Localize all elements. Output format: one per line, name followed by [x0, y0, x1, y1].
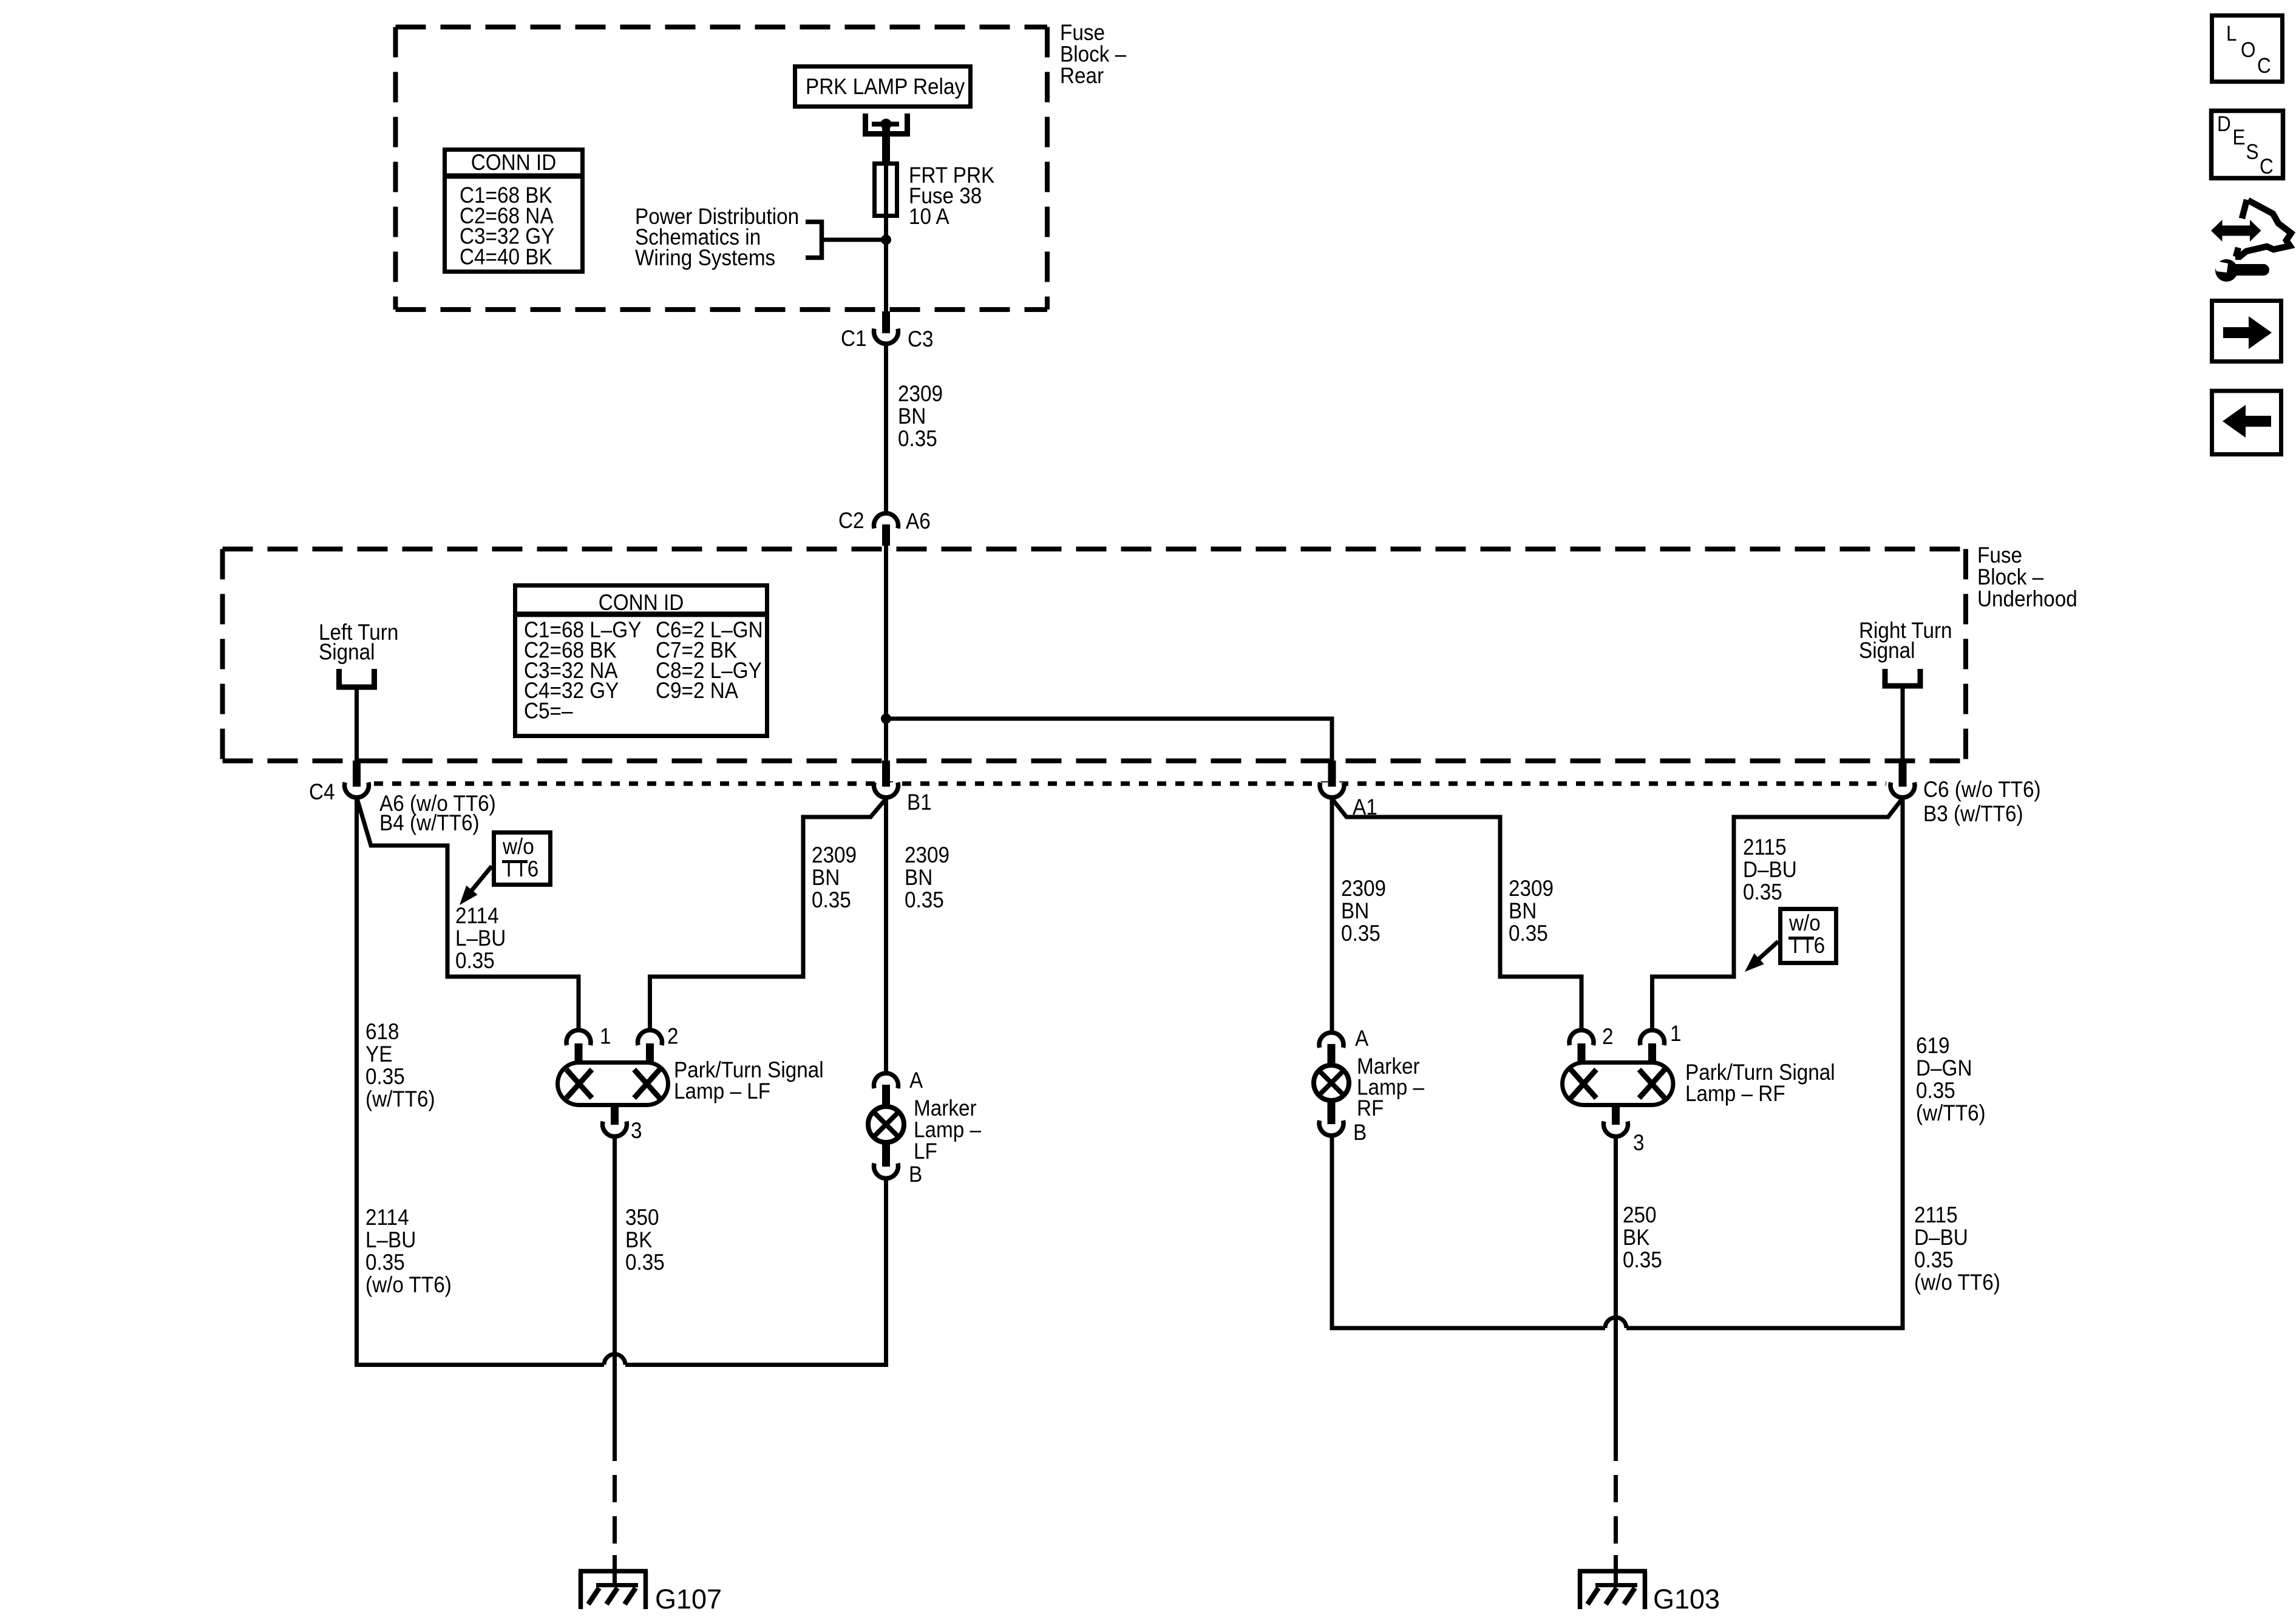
marker LF pin A bar: [882, 1085, 890, 1106]
park/turn LF pin 2 cup: [638, 1030, 662, 1045]
ground G103: [1578, 1571, 1647, 1610]
lamp Marker Lamp - RF: [1314, 1065, 1349, 1100]
arrow from w/o TT6 box (right): [1759, 941, 1778, 959]
lamp Marker Lamp - LF: [868, 1107, 904, 1142]
relay output pin bracket: [866, 114, 908, 134]
icon box DESC: [2212, 111, 2283, 178]
ground bus hop over 250 BK wire: [1605, 1318, 1626, 1329]
wire 2309 BN A1 down to marker lamp RF: [1330, 799, 1334, 1031]
ground bus to marker lamp LF pin B: [625, 1180, 886, 1365]
svg-text:CONN ID: CONN ID: [471, 150, 557, 175]
wire bracket to junction: [824, 238, 886, 242]
svg-text:0.35: 0.35: [365, 1064, 405, 1089]
svg-text:w/o: w/o: [1788, 910, 1821, 935]
wire 2309 BN C1 to C2: [884, 345, 888, 512]
svg-text:C3: C3: [908, 327, 934, 351]
svg-text:0.35: 0.35: [625, 1250, 665, 1275]
park/turn RF pin 2 cup: [1569, 1030, 1594, 1045]
svg-text:0.35: 0.35: [1341, 921, 1381, 946]
svg-text:A: A: [1355, 1026, 1369, 1051]
icon box next (right arrow): [2212, 301, 2281, 362]
icon box LOC: [2212, 16, 2283, 82]
svg-text:0.35: 0.35: [455, 948, 495, 973]
svg-text:BN: BN: [1341, 898, 1369, 923]
svg-text:2114: 2114: [365, 1205, 409, 1230]
wire marker RF pin B to ground bus: [1332, 1136, 1605, 1328]
power distribution bracket: [806, 222, 822, 258]
wire junction to C1: [884, 240, 888, 311]
svg-text:618: 618: [365, 1019, 399, 1044]
svg-text:CONN ID: CONN ID: [599, 590, 684, 615]
connector C1/C3 cup: [874, 329, 898, 344]
svg-text:350: 350: [625, 1205, 659, 1230]
park/turn RF pin 1 cup: [1640, 1030, 1665, 1045]
svg-text:C4: C4: [309, 779, 335, 804]
park/turn RF pin 2 bar: [1578, 1043, 1586, 1063]
wire 619 D-GN / 2115 D-BU C6 down to ground bus: [1626, 799, 1903, 1328]
icon box back (left arrow): [2212, 391, 2281, 455]
svg-text:B: B: [1353, 1120, 1367, 1145]
right turn signal terminal: [1885, 669, 1920, 686]
marker RF pin A bar: [1328, 1044, 1336, 1064]
left turn signal terminal: [339, 669, 375, 687]
svg-text:LF: LF: [914, 1139, 937, 1164]
connector B1 pin bar: [882, 761, 890, 787]
park/turn RF pin 3 bar: [1612, 1107, 1620, 1125]
dotted connector interface line: [374, 781, 1886, 786]
svg-text:BN: BN: [905, 865, 932, 890]
park/turn RF pin 1 bar: [1648, 1043, 1656, 1063]
relay pin bar: [882, 124, 890, 161]
wire into G103: [1614, 1555, 1618, 1584]
park/turn RF pin 3 cup: [1604, 1122, 1628, 1137]
svg-text:0.35: 0.35: [1509, 921, 1548, 946]
svg-text:2309: 2309: [1341, 876, 1386, 901]
svg-text:BK: BK: [1623, 1225, 1650, 1250]
svg-text:B: B: [909, 1162, 922, 1187]
svg-text:0.35: 0.35: [1623, 1247, 1662, 1272]
callout box w/o TT6 (right): [1781, 909, 1836, 963]
svg-text:Lamp – RF: Lamp – RF: [1685, 1081, 1785, 1106]
svg-text:2309: 2309: [905, 842, 949, 867]
svg-text:(w/TT6): (w/TT6): [365, 1086, 435, 1111]
connector B1 cup: [874, 782, 898, 798]
svg-text:L: L: [2226, 22, 2237, 46]
svg-text:D: D: [2217, 113, 2231, 137]
marker LF pin A cup: [874, 1073, 898, 1088]
lamp Park/Turn Signal Lamp - RF: [1563, 1063, 1674, 1105]
svg-text:Signal: Signal: [1859, 638, 1915, 663]
svg-text:RF: RF: [1357, 1096, 1384, 1120]
svg-text:B1: B1: [907, 790, 932, 815]
wire relay to junction: [884, 161, 888, 240]
svg-text:2309: 2309: [812, 842, 857, 867]
svg-text:G107: G107: [655, 1584, 722, 1615]
svg-text:L–BU: L–BU: [455, 926, 506, 951]
connector C6/B3 pin bar: [1899, 761, 1907, 787]
svg-text:3: 3: [631, 1118, 642, 1143]
marker LF pin B bar: [882, 1143, 890, 1167]
park/turn LF pin 1 bar: [575, 1043, 583, 1063]
park/turn LF pin 1 cup: [566, 1030, 591, 1045]
marker RF pin B cup: [1319, 1120, 1343, 1136]
svg-text:A: A: [909, 1068, 923, 1093]
connector A1 cup: [1320, 782, 1344, 798]
svg-text:PRK LAMP Relay: PRK LAMP Relay: [806, 74, 965, 99]
svg-text:0.35: 0.35: [898, 426, 937, 451]
svg-text:D–BU: D–BU: [1914, 1225, 1968, 1250]
wire 250 BK pin3 to ground lead: [1614, 1138, 1618, 1434]
svg-text:E: E: [2233, 126, 2246, 150]
wire 2309 BN branch B1 to park/turn LF pin 2: [650, 799, 886, 1029]
svg-text:C6 (w/o TT6): C6 (w/o TT6): [1923, 777, 2041, 802]
svg-text:(w/TT6): (w/TT6): [1916, 1100, 1986, 1125]
wire C2 to B1: [884, 544, 888, 761]
fuse block - rear dashed box: [396, 25, 1048, 30]
svg-text:1: 1: [1670, 1021, 1682, 1046]
svg-text:1: 1: [600, 1024, 611, 1049]
wire into G107: [613, 1555, 617, 1584]
wire junction to A1: [886, 719, 1333, 761]
svg-text:2114: 2114: [455, 903, 499, 928]
marker LF pin B cup: [874, 1164, 898, 1179]
svg-text:2309: 2309: [1509, 876, 1554, 901]
connector C6/B3 cup: [1890, 782, 1915, 798]
park/turn LF pin 3 cup: [603, 1122, 627, 1137]
connector C4 cup: [345, 782, 369, 798]
svg-text:S: S: [2246, 141, 2259, 164]
connector C2/A6 cup: [874, 514, 898, 529]
svg-text:Block –: Block –: [1977, 564, 2044, 589]
svg-text:D–GN: D–GN: [1916, 1056, 1972, 1080]
svg-text:0.35: 0.35: [365, 1250, 405, 1275]
svg-text:C: C: [2260, 155, 2274, 179]
svg-text:Rear: Rear: [1060, 63, 1104, 88]
connector C4 pin bar: [353, 761, 361, 787]
svg-text:(w/o TT6): (w/o TT6): [365, 1272, 452, 1297]
connector C2/A6 pin bar: [882, 524, 890, 546]
lamp Park/Turn Signal Lamp - LF: [558, 1063, 668, 1105]
svg-text:B3 (w/TT6): B3 (w/TT6): [1923, 801, 2023, 826]
svg-text:250: 250: [1623, 1202, 1657, 1227]
svg-text:10 A: 10 A: [909, 204, 949, 229]
svg-text:Fuse: Fuse: [1977, 543, 2022, 568]
wire 250 BK dashed ground lead: [1614, 1434, 1618, 1555]
connector C1/C3 pin bar: [882, 311, 890, 333]
svg-text:0.35: 0.35: [812, 887, 851, 912]
svg-text:2309: 2309: [898, 381, 943, 406]
svg-text:D–BU: D–BU: [1743, 857, 1797, 882]
svg-text:w/o: w/o: [502, 834, 534, 859]
svg-text:C: C: [2257, 55, 2271, 78]
relay box PRK LAMP Relay: [795, 67, 971, 107]
svg-text:A6: A6: [906, 509, 931, 534]
svg-text:C4=40 BK: C4=40 BK: [460, 245, 552, 269]
svg-text:YE: YE: [365, 1042, 392, 1066]
svg-text:C2: C2: [838, 508, 864, 533]
park/turn LF pin 2 bar: [646, 1043, 654, 1063]
wire 350 BK pin3 to ground lead: [613, 1138, 617, 1434]
wire 2114 L-BU branch C4 to park/turn LF pin 1: [358, 799, 579, 1029]
callout box w/o TT6 (left): [494, 833, 551, 885]
svg-text:BN: BN: [898, 404, 926, 429]
svg-text:G103: G103: [1653, 1584, 1720, 1615]
wire 618 YE / 2114 L-BU down from C4 to ground bus: [357, 799, 605, 1365]
svg-text:Lamp – LF: Lamp – LF: [674, 1079, 770, 1103]
svg-text:C9=2 NA: C9=2 NA: [656, 679, 739, 703]
svg-text:2115: 2115: [1914, 1202, 1958, 1227]
icon vehicle view with double arrow and wrench: [2211, 220, 2261, 242]
ground G107: [579, 1571, 648, 1610]
junction dot below fuse: [881, 235, 891, 245]
svg-text:2: 2: [1602, 1024, 1614, 1049]
svg-text:0.35: 0.35: [905, 887, 944, 912]
svg-text:C5=–: C5=–: [524, 699, 573, 724]
marker RF pin B bar: [1328, 1102, 1336, 1124]
wire 350 BK dashed ground lead: [613, 1434, 617, 1555]
arrow from w/o TT6 box (left): [472, 866, 492, 890]
svg-text:(w/o TT6): (w/o TT6): [1914, 1270, 2000, 1295]
park/turn LF pin 3 bar: [611, 1107, 619, 1125]
marker RF pin A cup: [1319, 1032, 1343, 1048]
CONN ID table (rear fuse block): [445, 150, 583, 272]
wire right turn signal to C6: [1901, 688, 1905, 761]
svg-text:Wiring Systems: Wiring Systems: [635, 245, 775, 270]
junction dot to right-turn branch: [881, 714, 891, 724]
svg-text:0.35: 0.35: [1914, 1247, 1954, 1272]
relay contact dot: [881, 119, 892, 130]
svg-text:0.35: 0.35: [1916, 1078, 1955, 1103]
svg-text:BN: BN: [812, 865, 840, 890]
svg-text:BN: BN: [1509, 898, 1537, 923]
fuse body: [875, 164, 897, 216]
svg-text:L–BU: L–BU: [365, 1227, 416, 1252]
ground bus hop over 350 BK wire: [604, 1354, 625, 1365]
svg-text:0.35: 0.35: [1743, 880, 1782, 904]
svg-text:2115: 2115: [1743, 835, 1787, 859]
fuse block - underhood dashed box: [223, 547, 1966, 552]
svg-text:Underhood: Underhood: [1977, 586, 2077, 611]
wire 2115 D-BU branch C6 to park/turn RF pin 1: [1652, 799, 1902, 1029]
svg-text:C1: C1: [841, 326, 867, 351]
relay contact line: [872, 122, 899, 127]
svg-text:B4 (w/TT6): B4 (w/TT6): [379, 810, 480, 835]
svg-text:BK: BK: [625, 1227, 653, 1252]
svg-text:3: 3: [1633, 1130, 1645, 1155]
wire left turn signal to C4: [355, 690, 359, 761]
svg-text:2: 2: [667, 1024, 679, 1049]
CONN ID table (underhood fuse block): [515, 586, 767, 736]
svg-text:619: 619: [1916, 1033, 1950, 1058]
svg-text:Signal: Signal: [319, 640, 375, 665]
connector A1 pin bar: [1328, 761, 1336, 787]
svg-text:O: O: [2241, 39, 2255, 63]
wire 2309 BN branch A1 to park/turn RF pin 2: [1333, 799, 1581, 1029]
wire 2309 BN B1 down to marker lamp LF: [884, 799, 888, 1071]
